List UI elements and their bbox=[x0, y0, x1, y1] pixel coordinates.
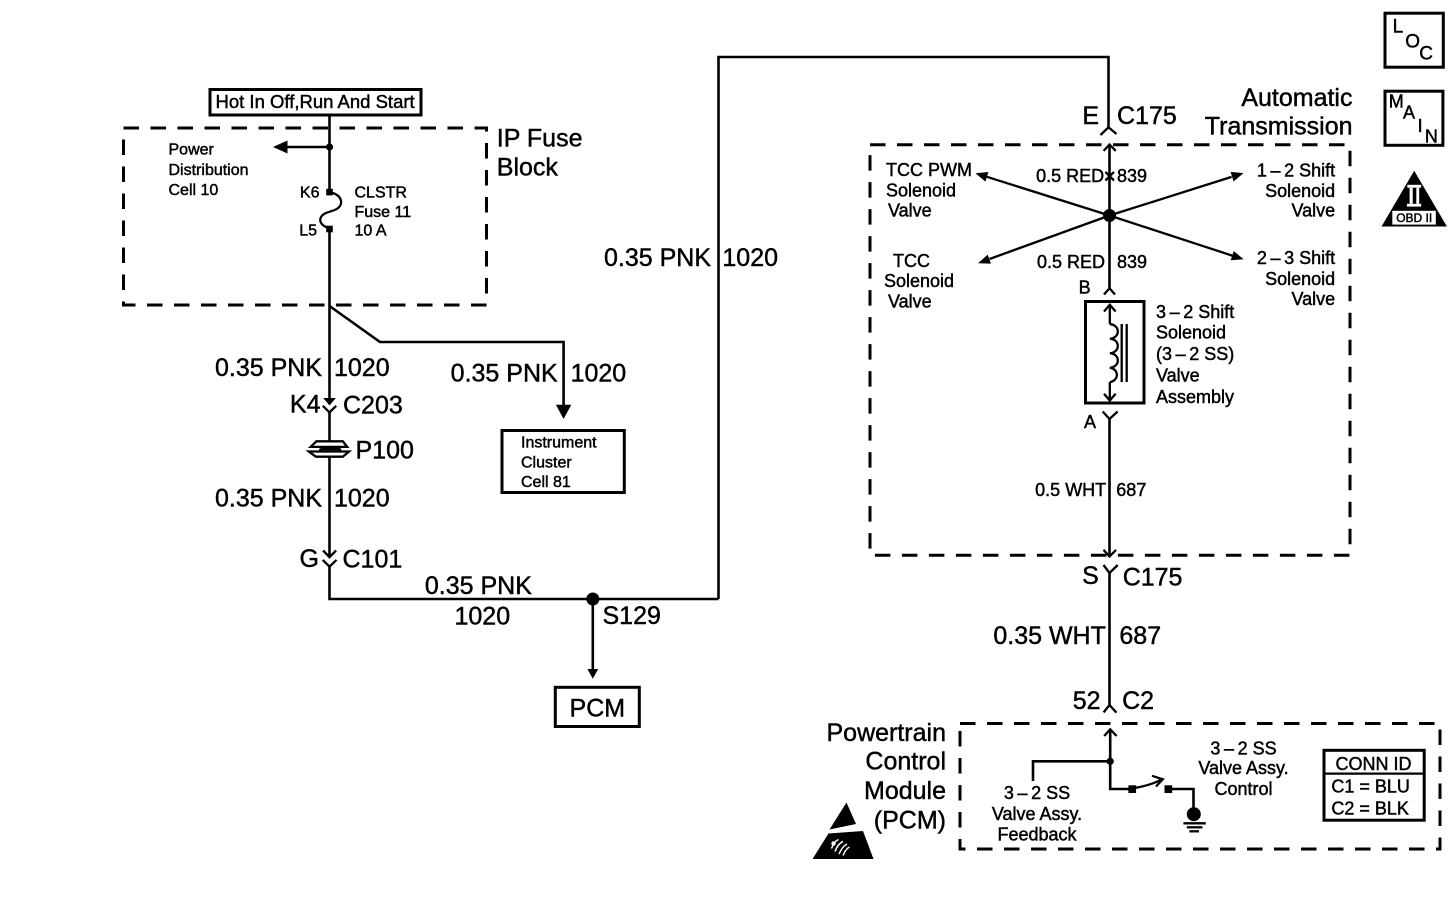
svg-text:839: 839 bbox=[1117, 252, 1147, 272]
svg-text:1020: 1020 bbox=[334, 485, 390, 513]
wire entering PCM (up arrow) down to junction bbox=[1104, 729, 1116, 761]
wire: diagonal to 1-2 shift solenoid valve bbox=[1110, 172, 1244, 216]
feedback stub wire bbox=[1033, 761, 1110, 781]
svg-text:M: M bbox=[1389, 92, 1404, 112]
svg-text:C175: C175 bbox=[1117, 102, 1177, 130]
wire: diagonal to TCC PWM solenoid valve bbox=[976, 172, 1110, 216]
svg-text:3 – 2 SS: 3 – 2 SS bbox=[1004, 783, 1070, 803]
svg-text:C: C bbox=[1419, 43, 1433, 64]
svg-text:1 – 2 Shift: 1 – 2 Shift bbox=[1257, 160, 1335, 180]
svg-text:0.35 PNK: 0.35 PNK bbox=[425, 572, 532, 600]
Power Distribution Cell 10 note bbox=[169, 142, 249, 200]
svg-text:E: E bbox=[1082, 102, 1099, 130]
svg-text:839: 839 bbox=[1117, 166, 1147, 186]
grommet P100 bbox=[309, 437, 414, 465]
svg-text:1020: 1020 bbox=[722, 244, 778, 272]
svg-text:52: 52 bbox=[1073, 687, 1101, 715]
wire: S129 down to PCM bbox=[587, 599, 598, 679]
svg-text:Power: Power bbox=[169, 142, 215, 159]
svg-text:Solenoid: Solenoid bbox=[1156, 323, 1226, 343]
3-2 SS Valve Assy. Control label bbox=[1198, 738, 1288, 799]
svg-text:CONN ID: CONN ID bbox=[1336, 754, 1412, 774]
OBD II triangle symbol bbox=[1382, 171, 1447, 227]
svg-text:N: N bbox=[1425, 127, 1438, 147]
svg-text:Distribution: Distribution bbox=[169, 162, 249, 179]
svg-text:3 – 2 Shift: 3 – 2 Shift bbox=[1156, 302, 1234, 322]
svg-text:C2: C2 bbox=[1122, 687, 1154, 715]
ground symbol bbox=[1183, 807, 1205, 831]
svg-text:Instrument: Instrument bbox=[521, 435, 597, 452]
wire: riser from bus up and across to C175 E bbox=[719, 57, 1109, 599]
wire: S down to 52 bbox=[1108, 573, 1111, 705]
svg-text:B: B bbox=[1079, 277, 1091, 297]
svg-text:Valve: Valve bbox=[1156, 366, 1200, 386]
svg-text:Valve Assy.: Valve Assy. bbox=[992, 804, 1082, 824]
svg-text:G: G bbox=[300, 545, 319, 573]
wire: hot feed from Hot box down to fuse K6 bbox=[328, 115, 331, 192]
svg-text:L5: L5 bbox=[299, 223, 317, 240]
svg-text:Solenoid: Solenoid bbox=[1265, 181, 1335, 201]
svg-text:687: 687 bbox=[1119, 622, 1161, 650]
svg-text:TCC: TCC bbox=[893, 251, 930, 271]
connector C2 pin 52 bbox=[1073, 687, 1154, 715]
wire label 0.35 WHT 687 bbox=[993, 622, 1161, 650]
svg-text:2 – 3 Shift: 2 – 3 Shift bbox=[1257, 248, 1335, 268]
svg-text:I: I bbox=[1418, 116, 1423, 136]
svg-text:3 – 2 SS: 3 – 2 SS bbox=[1210, 738, 1276, 758]
TCC Solenoid Valve label bbox=[884, 251, 954, 312]
svg-text:Feedback: Feedback bbox=[997, 825, 1077, 845]
branch arrow into instrument cluster bbox=[556, 405, 571, 419]
x mark on wire in RED 839 label bbox=[1105, 172, 1114, 181]
svg-text:Control: Control bbox=[865, 747, 946, 775]
svg-text:(PCM): (PCM) bbox=[874, 806, 946, 834]
svg-text:K4: K4 bbox=[290, 391, 321, 419]
wire: splice down to pin B bbox=[1108, 216, 1111, 289]
riser wire label 0.35 PNK 1020 bbox=[604, 244, 778, 272]
svg-text:K6: K6 bbox=[300, 185, 320, 202]
wire label 0.5 RED 839 (upper) bbox=[1036, 166, 1147, 186]
svg-text:Valve: Valve bbox=[888, 201, 932, 221]
svg-text:0.35 WHT: 0.35 WHT bbox=[993, 622, 1106, 650]
solenoid coil inside assembly bbox=[1104, 305, 1127, 401]
svg-text:O: O bbox=[1405, 32, 1420, 53]
svg-text:Valve: Valve bbox=[1291, 201, 1335, 221]
wire label 0.5 WHT 687 bbox=[1035, 480, 1146, 500]
svg-text:TCC PWM: TCC PWM bbox=[886, 160, 972, 180]
wire: diagonal to 2-3 shift solenoid valve bbox=[1110, 216, 1244, 261]
MAIN reference box bbox=[1385, 91, 1443, 146]
wire: pin A down to dashed border with down arrow bbox=[1104, 419, 1117, 557]
svg-text:A: A bbox=[1403, 102, 1415, 122]
wire: P100 to connector C101 bbox=[328, 457, 331, 558]
svg-text:10 A: 10 A bbox=[355, 223, 387, 240]
svg-text:1020: 1020 bbox=[571, 359, 627, 387]
svg-text:Valve Assy.: Valve Assy. bbox=[1198, 758, 1288, 778]
svg-text:Cluster: Cluster bbox=[521, 454, 572, 471]
Powertrain Control Module (PCM) title bbox=[827, 719, 947, 834]
3-2 shift solenoid assembly box bbox=[1086, 302, 1145, 404]
wire label 0.5 RED 839 (lower) bbox=[1037, 252, 1147, 272]
svg-text:C2 = BLK: C2 = BLK bbox=[1331, 799, 1409, 819]
branch wire label 0.35 PNK 1020 bbox=[451, 359, 627, 387]
svg-text:Fuse 11: Fuse 11 bbox=[355, 204, 412, 221]
svg-text:PCM: PCM bbox=[570, 695, 626, 723]
svg-text:S: S bbox=[1082, 562, 1099, 590]
LOC reference box bbox=[1385, 13, 1443, 67]
splice dot in transmission bbox=[1103, 209, 1116, 222]
connector C203 pin K4 bbox=[290, 391, 403, 420]
2-3 Shift Solenoid Valve label bbox=[1257, 248, 1335, 309]
svg-text:Automatic: Automatic bbox=[1241, 84, 1352, 112]
switch blade with arrow bbox=[1134, 776, 1163, 788]
wire entering transmission (up arrow) down to splice bbox=[1104, 145, 1116, 216]
svg-text:C203: C203 bbox=[343, 392, 403, 420]
connector C175 pin E bbox=[1082, 102, 1176, 135]
wire: contact B to ground bbox=[1172, 789, 1194, 808]
1-2 Shift Solenoid Valve label bbox=[1257, 160, 1335, 220]
svg-text:0.35 PNK: 0.35 PNK bbox=[604, 244, 711, 272]
wire: C101 down and bus to riser bbox=[330, 567, 719, 599]
svg-text:L: L bbox=[1393, 17, 1404, 38]
wire label 0.35 PNK 1020 (upper) bbox=[215, 354, 390, 382]
pin B of solenoid assembly bbox=[1079, 277, 1115, 297]
IP Fuse Block dashed box bbox=[124, 128, 487, 305]
switch contact A bbox=[1128, 785, 1136, 793]
Automatic Transmission title bbox=[1205, 84, 1353, 140]
svg-text:CLSTR: CLSTR bbox=[355, 185, 407, 202]
svg-text:1020: 1020 bbox=[455, 603, 511, 631]
svg-text:0.5 RED: 0.5 RED bbox=[1036, 166, 1104, 186]
wire: arrow to power distribution cell 10 bbox=[273, 141, 330, 154]
svg-text:1020: 1020 bbox=[334, 354, 390, 382]
bus label 0.35 PNK / 1020 bbox=[425, 572, 532, 631]
svg-text:687: 687 bbox=[1116, 480, 1146, 500]
connector C101 pin G bbox=[300, 545, 403, 574]
svg-text:0.35 PNK: 0.35 PNK bbox=[451, 359, 558, 387]
svg-text:Block: Block bbox=[497, 154, 559, 182]
svg-text:Assembly: Assembly bbox=[1156, 387, 1234, 407]
svg-text:Module: Module bbox=[864, 777, 946, 805]
svg-text:Valve: Valve bbox=[1291, 289, 1335, 309]
svg-text:Powertrain: Powertrain bbox=[827, 719, 947, 747]
svg-text:C101: C101 bbox=[343, 546, 403, 574]
svg-text:C175: C175 bbox=[1123, 564, 1183, 592]
PCM box bbox=[555, 687, 639, 726]
svg-text:(3 – 2 SS): (3 – 2 SS) bbox=[1156, 344, 1234, 364]
ESD sensitivity symbol bbox=[813, 803, 874, 860]
wire: diagonal to TCC solenoid valve bbox=[978, 216, 1110, 264]
branch wire to instrument cluster bbox=[330, 306, 564, 406]
svg-text:Hot In Off,Run And Start: Hot In Off,Run And Start bbox=[216, 91, 415, 112]
fuse CLSTR Fuse 11 10A (S-curve with terminals K6,L5) bbox=[320, 189, 341, 233]
fuse value label CLSTR Fuse 11 10 A bbox=[355, 185, 412, 240]
Automatic Transmission dashed box bbox=[870, 145, 1350, 555]
IP Fuse Block title bbox=[497, 124, 583, 181]
svg-text:Solenoid: Solenoid bbox=[1265, 269, 1335, 289]
svg-text:IP Fuse: IP Fuse bbox=[497, 124, 583, 152]
svg-text:0.5 RED: 0.5 RED bbox=[1037, 252, 1105, 272]
junction dot in PCM bbox=[1107, 758, 1114, 765]
svg-text:0.35 PNK: 0.35 PNK bbox=[215, 485, 322, 513]
wire: fuse L5 down to connector C203 bbox=[328, 230, 331, 399]
switch contact B bbox=[1165, 785, 1173, 793]
svg-text:Valve: Valve bbox=[888, 291, 932, 311]
svg-text:C1 = BLU: C1 = BLU bbox=[1331, 777, 1410, 797]
wire: junction down to switch bbox=[1110, 761, 1128, 789]
3-2 Shift Solenoid (3-2 SS) Valve Assembly label bbox=[1156, 302, 1234, 407]
svg-text:0.35 PNK: 0.35 PNK bbox=[215, 354, 322, 382]
connector C175 pin S bbox=[1082, 562, 1182, 592]
junction dot at power distribution tap bbox=[326, 143, 333, 150]
svg-text:Cell 10: Cell 10 bbox=[169, 182, 219, 199]
svg-text:OBD II: OBD II bbox=[1396, 211, 1432, 225]
wire label 0.35 PNK 1020 (lower) bbox=[215, 485, 390, 513]
svg-text:Solenoid: Solenoid bbox=[884, 271, 954, 291]
label box Hot In Off,Run And Start bbox=[210, 90, 421, 116]
TCC PWM Solenoid Valve label bbox=[886, 160, 972, 221]
splice S129 bbox=[586, 593, 661, 631]
PCM dashed box bbox=[960, 724, 1440, 850]
3-2 SS Valve Assy. Feedback label bbox=[992, 783, 1082, 845]
svg-text:S129: S129 bbox=[603, 602, 661, 630]
svg-text:P100: P100 bbox=[356, 437, 414, 465]
svg-text:Solenoid: Solenoid bbox=[886, 180, 956, 200]
instrument cluster box bbox=[502, 431, 624, 493]
svg-text:Transmission: Transmission bbox=[1205, 112, 1353, 140]
svg-text:Cell 81: Cell 81 bbox=[521, 474, 571, 491]
CONN ID table bbox=[1324, 750, 1424, 820]
pin A of solenoid assembly bbox=[1084, 412, 1118, 432]
svg-text:A: A bbox=[1084, 412, 1096, 432]
wire: C203 to grommet P100 bbox=[328, 412, 331, 442]
svg-text:0.5 WHT: 0.5 WHT bbox=[1035, 480, 1106, 500]
svg-text:Control: Control bbox=[1214, 779, 1272, 799]
